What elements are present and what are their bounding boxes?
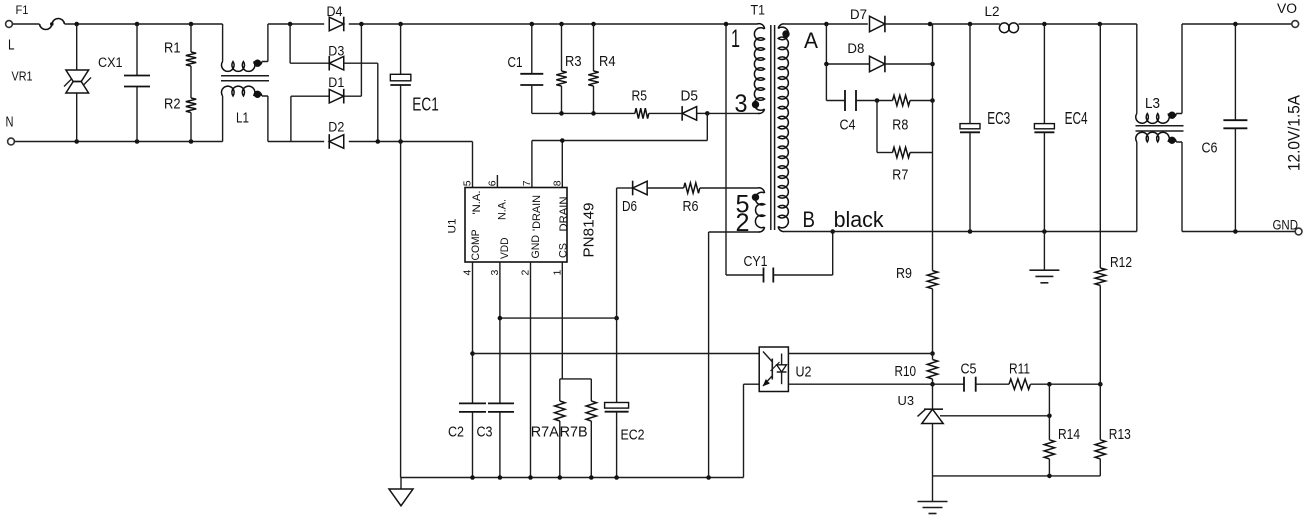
svg-text:1: 1 (731, 25, 740, 53)
svg-text:D2: D2 (328, 119, 344, 135)
svg-text:'DRAIN: 'DRAIN (531, 195, 543, 231)
svg-text:D5: D5 (681, 89, 699, 105)
svg-text:3: 3 (735, 90, 748, 118)
svg-text:R8: R8 (892, 118, 908, 134)
svg-text:4: 4 (462, 270, 474, 276)
svg-text:A: A (804, 28, 818, 53)
svg-text:D6: D6 (622, 199, 637, 215)
svg-text:CS: CS (558, 243, 570, 258)
svg-text:2: 2 (520, 270, 532, 276)
svg-text:5: 5 (462, 180, 474, 186)
svg-text:EC3: EC3 (987, 108, 1010, 128)
svg-text:L3: L3 (1145, 96, 1160, 112)
svg-text:R4: R4 (599, 54, 616, 70)
svg-text:R3: R3 (565, 54, 582, 70)
svg-text:VR1: VR1 (12, 70, 33, 84)
svg-text:C3: C3 (477, 425, 493, 441)
svg-text:B: B (803, 207, 816, 232)
svg-text:L1: L1 (236, 110, 249, 127)
svg-text:U1: U1 (447, 219, 459, 234)
svg-text:D8: D8 (847, 40, 864, 56)
svg-text:F1: F1 (16, 5, 29, 17)
svg-text:C6: C6 (1202, 140, 1218, 157)
svg-text:2: 2 (736, 209, 750, 237)
svg-text:D4: D4 (327, 3, 343, 19)
svg-text:3: 3 (489, 270, 501, 276)
svg-text:C2: C2 (448, 425, 464, 441)
svg-text:C1: C1 (508, 55, 523, 71)
svg-text:R14: R14 (1058, 427, 1080, 443)
svg-text:R5: R5 (632, 89, 648, 105)
svg-text:R13: R13 (1109, 427, 1131, 443)
svg-text:T1: T1 (751, 3, 766, 18)
svg-text:R7: R7 (892, 168, 908, 184)
svg-text:R12: R12 (1110, 255, 1132, 271)
svg-text:12.0V/1.5A: 12.0V/1.5A (1285, 94, 1304, 171)
svg-text:L2: L2 (985, 3, 1000, 19)
svg-text:R10: R10 (895, 364, 917, 380)
svg-text:D3: D3 (328, 43, 344, 59)
svg-text:R7A: R7A (531, 425, 559, 441)
svg-text:D1: D1 (328, 74, 344, 90)
svg-text:R7B: R7B (560, 425, 588, 441)
svg-text:black: black (834, 207, 885, 232)
svg-text:7: 7 (521, 180, 533, 186)
svg-text:R11: R11 (1009, 362, 1030, 378)
svg-text:1: 1 (551, 270, 563, 276)
svg-text:C4: C4 (840, 118, 856, 134)
svg-text:VO: VO (1277, 1, 1297, 16)
svg-text:VDD: VDD (499, 237, 511, 259)
svg-text:COMP: COMP (470, 230, 482, 261)
svg-text:D7: D7 (850, 6, 867, 22)
svg-text:PN8149: PN8149 (581, 203, 598, 258)
svg-text:CY1: CY1 (744, 254, 768, 270)
svg-text:R6: R6 (683, 199, 699, 215)
svg-text:CX1: CX1 (98, 55, 123, 70)
svg-text:8: 8 (551, 180, 563, 186)
svg-text:U2: U2 (796, 365, 812, 381)
svg-text:N: N (6, 114, 14, 131)
svg-text:6: 6 (486, 180, 498, 186)
svg-text:DRAIN: DRAIN (558, 196, 570, 231)
svg-text:N.A.: N.A. (497, 199, 509, 220)
svg-text:R2: R2 (164, 96, 181, 113)
svg-text:C5: C5 (961, 362, 977, 378)
svg-text:GND: GND (1273, 218, 1299, 233)
svg-text:GND: GND (530, 235, 542, 259)
svg-text:R9: R9 (896, 266, 912, 282)
svg-text:EC4: EC4 (1065, 108, 1088, 128)
svg-text:'N.A.: 'N.A. (471, 191, 483, 215)
svg-text:R1: R1 (164, 40, 181, 57)
svg-text:EC2: EC2 (621, 428, 645, 444)
svg-text:EC1: EC1 (412, 95, 439, 115)
svg-text:U3: U3 (898, 393, 915, 408)
svg-text:L: L (8, 37, 15, 54)
